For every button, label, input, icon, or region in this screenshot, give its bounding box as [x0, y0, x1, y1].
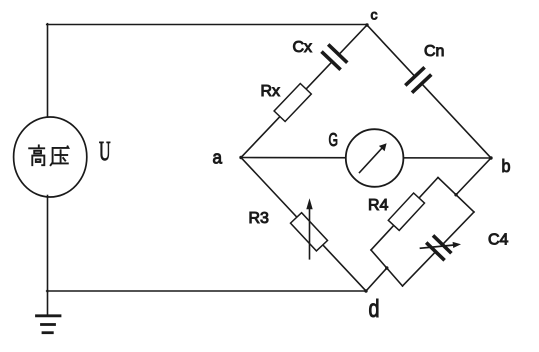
wire — [438, 178, 474, 213]
arrow of variable C4 — [421, 242, 462, 248]
wire — [403, 212, 475, 286]
capacitor C4 (variable) — [428, 237, 451, 259]
svg-text:Cx: Cx — [293, 39, 313, 56]
junction of b-branch — [454, 193, 457, 196]
capacitor Cn — [407, 69, 430, 92]
svg-text:d: d — [369, 295, 380, 323]
node a — [239, 156, 242, 159]
wire — [47, 290, 367, 292]
svg-text:b: b — [502, 156, 511, 176]
junction of d-branch — [385, 266, 388, 269]
svg-text:R3: R3 — [249, 210, 270, 227]
wire — [371, 250, 403, 286]
wire — [366, 268, 387, 291]
value label: Chinese glyph YA of 高压 — [51, 146, 69, 165]
svg-text:c: c — [371, 7, 378, 23]
resistor R4 — [388, 193, 424, 230]
svg-text:a: a — [213, 148, 223, 168]
voltage source U (high-voltage AC supply) — [14, 117, 87, 197]
wire — [241, 157, 492, 160]
wire — [47, 24, 368, 26]
svg-text:U: U — [99, 136, 111, 166]
wire — [241, 25, 367, 158]
svg-text:Cn: Cn — [424, 43, 444, 60]
capacitor Cx — [323, 46, 346, 69]
resistor Rx — [274, 84, 311, 122]
arrow of adjustable R3 — [306, 198, 312, 258]
wire — [371, 178, 438, 251]
wire — [241, 158, 366, 292]
ground — [37, 291, 61, 333]
wire — [47, 196, 49, 292]
svg-text:C4: C4 — [488, 232, 509, 249]
svg-text:G: G — [329, 130, 339, 150]
value label: Chinese glyph GAO of 高压 — [29, 145, 44, 165]
galvanometer G — [346, 129, 404, 187]
wire — [367, 25, 491, 158]
resistor R3 (adjustable) — [291, 213, 328, 251]
node d — [364, 289, 367, 292]
node b — [489, 156, 492, 159]
svg-text:Rx: Rx — [261, 83, 281, 100]
wire — [47, 24, 49, 119]
node c — [365, 23, 368, 26]
wire — [456, 158, 491, 195]
svg-text:R4: R4 — [368, 197, 389, 214]
